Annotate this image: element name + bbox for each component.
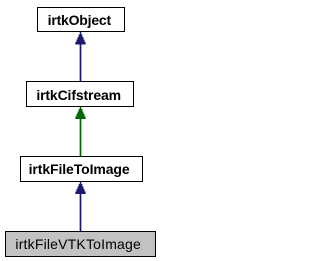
inheritance arrow irtkCifstream -> irtkObject (public, blue) (75, 32, 85, 82)
class box irtkCifstream (26, 81, 134, 107)
inheritance arrow irtkFileToImage -> irtkCifstream (protected, green) (75, 107, 85, 157)
class box irtkFileVTKToImage (current class, gray) (5, 231, 156, 257)
inheritance arrow irtkFileVTKToImage -> irtkFileToImage (public, blue) (75, 182, 85, 232)
class box irtkObject (37, 7, 125, 32)
class box irtkFileToImage (20, 156, 143, 182)
